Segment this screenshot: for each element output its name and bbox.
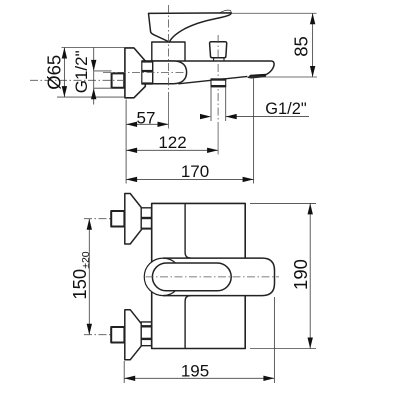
57 arrows [126,122,137,127]
G1/2 right arrows (outside, pointing in) [200,114,211,119]
dim 57 line [126,123,168,125]
dim 122 line [126,149,218,151]
top eccentric centerline [84,218,153,220]
diverter / shower outlet centerline [217,35,219,128]
dim 195 extension lines [123,361,125,383]
dim 170 line [126,178,254,180]
shower hose connector collar [211,79,226,87]
G1/2 right extension lines [210,87,212,121]
bottom connector nipple [141,322,151,346]
svg-text:G1/2": G1/2" [72,50,91,93]
diverter knob [210,42,227,58]
aerator [247,74,266,79]
svg-text:190: 190 [290,259,311,290]
arrowheads: side view [62,13,316,182]
dimension texts: front view [69,251,311,380]
dim 190 extension lines [250,202,316,204]
cartridge body capsule (side view) [153,61,187,84]
122 arrows [126,148,137,153]
body centerline (side view) [103,71,186,73]
cartridge cap circle [144,258,182,296]
svg-text:G1/2": G1/2" [265,100,307,118]
170 arrows [126,177,137,182]
Ø65 arrows [62,48,67,59]
190 arrows [308,203,313,214]
dimension texts: side view [43,36,311,181]
dim 195 line [124,377,274,379]
wall pipe stub (side view) [112,73,125,87]
dim G1/2 left extension lines [94,70,112,72]
85 bottom arrow [310,66,315,77]
body (front view) [152,203,246,348]
capsule centerline [146,276,280,278]
top eccentric wall stub [111,211,124,227]
spout underside [178,76,247,83]
bottom eccentric centerline [84,334,153,336]
dim Ø65 line [63,48,65,98]
svg-text:195: 195 [181,361,209,380]
dim 190 line [309,203,311,348]
hex nut (side view) [142,61,153,84]
shared extension line at wall face [125,100,127,184]
escutcheon (side view) [125,48,145,98]
top escutcheon [125,194,142,245]
svg-text:122: 122 [158,133,186,152]
arrowheads: front view [87,203,313,381]
bottom eccentric wall stub [111,327,124,343]
extension line at spout outlet [253,78,255,184]
spout top edge and tip [185,61,274,75]
lever handle (side view) [149,13,232,42]
handle tip lip [220,10,232,13]
body inner line top [185,203,190,258]
svg-text:Ø65: Ø65 [43,55,64,90]
body inner line bottom [185,296,190,349]
G1/2 left arrows (outside, pointing in) [91,60,96,71]
handle collar (side view) [152,42,185,61]
top connector nipple [141,208,151,229]
lever front face [152,263,231,291]
dim G1/2 left line [93,48,95,105]
dim Ø65 extension lines [62,47,126,49]
G1/2 right leader [226,116,309,118]
dim 150 line [88,219,90,335]
195 arrows [124,376,135,381]
150 arrows [87,219,92,230]
svg-text:170: 170 [181,162,209,181]
svg-text:150±20: 150±20 [69,251,92,299]
dim 85 extension lines [232,12,317,14]
handle centerline [168,5,170,97]
svg-text:57: 57 [137,108,156,127]
dim 85 line [312,13,314,77]
85 top arrow [310,13,315,24]
lever capsule (front view) [144,258,274,296]
stub centerline [30,79,124,81]
svg-text:85: 85 [290,36,311,57]
bottom escutcheon [125,310,142,360]
